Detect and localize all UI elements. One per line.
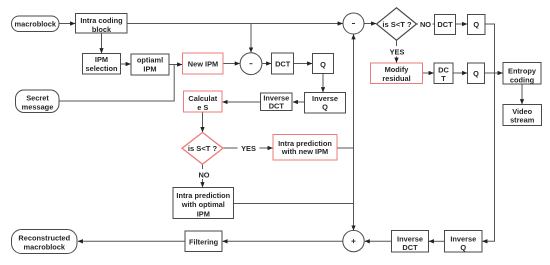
- svg-text:YES: YES: [241, 144, 256, 153]
- svg-text:DCT: DCT: [269, 102, 285, 111]
- svg-text:optiaml: optiaml: [137, 56, 163, 65]
- svg-text:macroblock: macroblock: [24, 243, 66, 252]
- svg-text:IPM: IPM: [197, 210, 210, 219]
- svg-text:Intra prediction: Intra prediction: [176, 191, 230, 200]
- svg-text:Q: Q: [473, 20, 479, 29]
- svg-text:Q: Q: [322, 103, 328, 112]
- svg-text:Calculat: Calculat: [188, 94, 217, 103]
- svg-text:e S: e S: [197, 103, 208, 112]
- svg-text:coding: coding: [510, 75, 535, 84]
- svg-text:DCT: DCT: [437, 20, 453, 29]
- svg-text:is S<T ?: is S<T ?: [382, 20, 412, 29]
- svg-text:DCT: DCT: [402, 243, 418, 252]
- svg-text:Intra coding: Intra coding: [80, 16, 123, 25]
- svg-text:with optimal: with optimal: [181, 200, 225, 209]
- svg-text:Filtering: Filtering: [189, 237, 219, 246]
- svg-text:DCT: DCT: [275, 60, 291, 69]
- svg-text:Q: Q: [473, 69, 479, 78]
- svg-text:is S<T ?: is S<T ?: [188, 144, 218, 153]
- svg-text:stream: stream: [510, 116, 535, 125]
- svg-text:IPM: IPM: [95, 55, 108, 64]
- svg-text:Inverse: Inverse: [312, 94, 338, 103]
- svg-text:NO: NO: [198, 170, 209, 179]
- svg-text:Reconstructed: Reconstructed: [18, 233, 70, 242]
- svg-text:T: T: [441, 74, 446, 83]
- svg-text:DC: DC: [438, 65, 449, 74]
- svg-text:YES: YES: [390, 47, 405, 56]
- svg-text:macroblock: macroblock: [15, 20, 57, 29]
- svg-text:IPM: IPM: [143, 65, 156, 74]
- svg-text:Q: Q: [320, 60, 326, 69]
- svg-text:selection: selection: [85, 64, 118, 73]
- svg-text:New IPM: New IPM: [188, 60, 218, 69]
- svg-text:NO: NO: [420, 20, 431, 29]
- svg-text:with new IPM: with new IPM: [281, 147, 328, 156]
- svg-text:Modify: Modify: [385, 65, 410, 74]
- svg-text:block: block: [92, 25, 112, 34]
- svg-text:residual: residual: [382, 74, 410, 83]
- svg-text:Q: Q: [460, 243, 466, 252]
- svg-text:Secret: Secret: [26, 93, 49, 102]
- svg-text:Entropy: Entropy: [508, 66, 537, 75]
- svg-text:Video: Video: [512, 107, 532, 116]
- svg-text:message: message: [22, 102, 54, 111]
